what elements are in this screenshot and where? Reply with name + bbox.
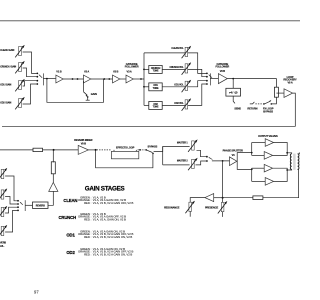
resistor mixer input — [33, 148, 43, 151]
op-amp V5A loop recovery — [284, 89, 293, 98]
svg-text:RED :: RED : — [84, 217, 91, 221]
wire valve3+4 outputs — [273, 168, 288, 181]
wire secondary top out — [298, 152, 300, 155]
wire bypass underpass — [96, 150, 153, 168]
header rule — [0, 20, 300, 22]
potentiometer CRUNCH GAIN — [15, 61, 25, 74]
wire clean vol to mix — [188, 53, 206, 74]
op-amp V5B reverb mixer — [78, 145, 88, 154]
wire master2 to switch — [196, 161, 207, 165]
op-amp NFB (left) — [205, 194, 214, 202]
tone selector common bar — [209, 73, 211, 85]
potentiometer OD1 VOL — [182, 80, 192, 93]
block CRUNCH TONE — [149, 66, 162, 74]
wire bus to od2 tone — [144, 104, 149, 106]
transformer primary coil — [290, 154, 291, 170]
wire pot3 to selector — [23, 81, 37, 86]
series resistor loop R — [274, 87, 278, 97]
svg-text:OD1 VOL: OD1 VOL — [174, 85, 184, 87]
potentiometer OD2 GAIN — [15, 97, 25, 110]
potentiometer MASTER 2 — [188, 158, 198, 171]
block OD1 TONE — [149, 83, 162, 91]
wire resistor to mixer node — [52, 150, 54, 162]
potentiometer CLEAN VOL — [182, 46, 192, 59]
wire rpot3 to reverb selector — [5, 207, 17, 213]
svg-text:CRUNCH: CRUNCH — [58, 215, 76, 220]
wire to phase splitter — [212, 160, 230, 162]
svg-text:97: 97 — [34, 290, 39, 295]
wire od2 vol to mix — [188, 84, 206, 105]
wire crunch tone to pot — [162, 68, 185, 70]
valve 2 — [264, 152, 272, 160]
node after loop — [139, 149, 141, 151]
master switch wiper — [208, 157, 212, 160]
channel selector wiper — [38, 74, 42, 78]
wire reverb box to recovery amp — [48, 191, 53, 205]
wire valve1 input — [252, 142, 266, 144]
wire selector to V3B — [210, 78, 218, 80]
potentiometer CLEAN GAIN — [15, 45, 25, 58]
node top rail — [251, 152, 253, 154]
wire V2B to V3A — [120, 78, 126, 80]
wire recovery amp to resistor — [52, 174, 54, 183]
potentiometer reverb clean — [0, 168, 7, 181]
wire V3A to tone bus — [133, 78, 144, 80]
wire resistor to mixer amp — [43, 149, 79, 151]
node pair after V2A — [103, 78, 105, 80]
wire master1 to switch — [197, 150, 207, 156]
wire nfb to resonance pot — [190, 198, 205, 202]
potentiometer reverb od2 — [0, 225, 7, 238]
wire od1 vol to mix — [188, 81, 206, 87]
wire pot4 to selector — [23, 84, 37, 104]
wire pot2 to selector — [23, 68, 37, 77]
wire node to level box — [232, 79, 234, 89]
master switch contacts — [206, 156, 208, 158]
node after V3B — [232, 78, 234, 80]
wire pot1 to selector — [23, 52, 37, 73]
svg-text:RED :: RED : — [84, 253, 91, 257]
svg-text:LVL.: LVL. — [0, 246, 5, 248]
potentiometer OD2 VOL — [182, 98, 192, 111]
wire rpot4 to reverb selector — [5, 210, 17, 232]
channel selector common bar — [42, 73, 44, 85]
valve 3 — [264, 164, 272, 172]
wire resonance pot down — [189, 211, 191, 216]
potentiometer CRUNCH VOL — [182, 62, 192, 75]
wire crunch vol to mix — [188, 69, 206, 76]
wire V3B to loop — [227, 79, 276, 88]
svg-text:CLEAN: CLEAN — [63, 198, 77, 203]
wire to transformer primary bottom — [287, 168, 292, 171]
svg-text:TONE: TONE — [153, 88, 159, 90]
potentiometer PRESENCE — [218, 201, 228, 214]
op-amp V3B cathode follower — [218, 74, 227, 84]
potentiometer reverb crunch — [0, 188, 7, 201]
svg-text:V1 A, V1 B, V2 A GAIN OFF, V2: V1 A, V1 B, V2 A GAIN OFF, V2 B — [93, 201, 134, 205]
svg-text:CRUNCH: CRUNCH — [151, 68, 161, 70]
valve 1 — [265, 139, 273, 147]
wire presence pot down — [222, 212, 224, 217]
wire recovery output long return — [2, 93, 295, 126]
wire valves input rails — [251, 143, 253, 156]
svg-text:V1 A, V2 A, GAIN ON, V2 B: V1 A, V2 A, GAIN ON, V2 B — [93, 217, 126, 221]
wire od1 tone to pot — [162, 86, 185, 88]
block OD2 TONE — [149, 102, 162, 110]
potentiometer MASTER 1 — [188, 139, 198, 152]
wire master split vertical — [162, 146, 164, 165]
reverb selector common bar — [24, 200, 26, 211]
wire mixer out — [88, 149, 95, 151]
node bottom rail — [251, 169, 253, 171]
wire valve1+2 outputs — [273, 143, 288, 156]
node at feedback box left — [46, 78, 48, 80]
block effects loop path — [111, 150, 138, 159]
potentiometer reverb od1 — [0, 206, 7, 219]
wire rpot1 to reverb selector — [5, 176, 17, 201]
op-amp V2B — [113, 75, 120, 83]
node feedback — [222, 197, 224, 199]
wire node to nfb amp — [214, 197, 223, 199]
wire divider tap to recovery amp — [276, 92, 284, 94]
wire phase splitter output rail — [237, 153, 252, 162]
wire valve4 input — [252, 180, 266, 182]
transformer core — [293, 154, 295, 170]
wire secondary bottom to feedback — [263, 169, 299, 197]
channel selector contacts — [36, 73, 38, 85]
svg-text:TONE: TONE — [153, 107, 159, 109]
wire clean vol row — [144, 52, 185, 54]
wire bus to crunch tone — [144, 68, 149, 70]
wire to master2 — [163, 164, 190, 166]
potentiometer OD1 GAIN — [15, 79, 25, 92]
wire resistor to node — [223, 197, 253, 199]
reverb selector contacts — [17, 200, 19, 211]
wire od2 tone to pot — [162, 104, 185, 106]
wire feedback box around V1B V2A — [47, 79, 104, 103]
wire selector to reverb box — [25, 204, 32, 206]
valve 4 — [265, 178, 273, 186]
svg-text:GAIN STAGES: GAIN STAGES — [85, 186, 125, 193]
wire bus to od1 tone — [144, 86, 149, 88]
tone bus vertical — [143, 53, 145, 106]
node reverb join — [53, 149, 55, 151]
wire mixer input line — [0, 149, 33, 151]
node at bus input — [140, 78, 142, 80]
resistor feedback — [253, 196, 263, 200]
tone selector wiper — [208, 74, 212, 78]
return jack — [250, 102, 255, 104]
switch GAIN hanging below V2A — [84, 81, 90, 100]
op-amp V2A — [84, 75, 91, 83]
wire to master1 — [163, 145, 190, 147]
svg-text:CRUNCH VOL: CRUNCH VOL — [169, 67, 184, 69]
wire node to presence pot — [222, 198, 224, 203]
node pair after V1B — [72, 78, 74, 80]
fx loop bypass switch — [263, 100, 272, 105]
op-amp V1B — [56, 75, 63, 83]
dashed wire loop to bypass — [138, 149, 146, 151]
svg-text:OD1: OD1 — [66, 232, 75, 237]
svg-text:OD2: OD2 — [66, 250, 75, 255]
svg-text:OD2 VOL: OD2 VOL — [174, 103, 184, 105]
wire valve2 input — [252, 154, 265, 156]
dashed return wire — [255, 103, 262, 105]
node feedback tap — [222, 160, 224, 162]
op-amp V4 phase splitter — [230, 157, 237, 166]
svg-text:TONE: TONE — [153, 71, 159, 73]
wire to transformer primary top — [287, 153, 292, 154]
block REVERB — [33, 202, 49, 208]
potentiometer RESONANCE — [185, 201, 195, 214]
svg-text:RED :: RED : — [84, 235, 91, 239]
wire V1B to V2A — [63, 78, 83, 80]
svg-text:VERB: VERB — [0, 243, 6, 245]
resistor reverb return — [51, 162, 55, 174]
tone selector contacts — [206, 73, 208, 85]
svg-text:REVERB: REVERB — [36, 205, 45, 207]
op-amp V3A cathode follower — [126, 75, 133, 83]
wire selector to V1B — [43, 78, 56, 80]
wire resistor to bypass switch — [272, 97, 277, 104]
op-amp reverb recovery (up) — [49, 182, 58, 191]
block +4/-10 level — [226, 88, 241, 96]
svg-text:V1 A, V1 B, V2 A GAIN ON, V2 B: V1 A, V1 B, V2 A GAIN ON, V2 B — [93, 235, 133, 239]
loop bypass switch — [146, 149, 154, 154]
svg-text:+4 / -10: +4 / -10 — [229, 92, 238, 95]
svg-text:RED :: RED : — [84, 201, 91, 205]
node mixer out — [95, 149, 97, 151]
wire switch to master split — [154, 146, 163, 151]
svg-text:V1 A, V1 B, V2 A GAIN ON, V2 B: V1 A, V1 B, V2 A GAIN ON, V2 B — [93, 253, 133, 257]
wire node up to splitter input — [222, 161, 224, 198]
transformer secondary coil — [298, 154, 299, 170]
reverb selector wiper — [19, 202, 23, 205]
wire level box to send jack — [233, 96, 235, 103]
wire valve3 input — [252, 167, 265, 169]
dashed wire to effects loop — [97, 149, 112, 151]
wire rpot2 to reverb selector — [5, 197, 17, 205]
wire V2A to V2B — [91, 78, 113, 80]
